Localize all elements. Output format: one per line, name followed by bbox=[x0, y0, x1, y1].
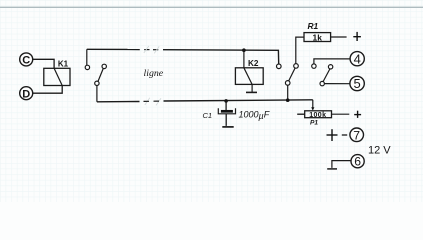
svg-text:ligne: ligne bbox=[144, 68, 164, 79]
wire C1 lower stub bbox=[225, 114, 227, 126]
wire C1 stub bbox=[225, 101, 227, 110]
wire R1 left lead bbox=[296, 37, 304, 64]
svg-text:5: 5 bbox=[353, 76, 360, 91]
wire terminal 6 lead bbox=[332, 161, 351, 168]
svg-text:1k: 1k bbox=[313, 32, 323, 42]
plus terminal (P1) bbox=[354, 111, 361, 118]
resistor R1 bbox=[304, 32, 331, 42]
wire R1 right lead bbox=[331, 36, 347, 38]
svg-text:P1: P1 bbox=[310, 120, 318, 127]
svg-text:R1: R1 bbox=[307, 21, 318, 31]
svg-text:100k: 100k bbox=[309, 112, 326, 119]
switch S1 bbox=[85, 64, 106, 85]
switch S2 bbox=[277, 64, 299, 86]
junction node (K2 tap) bbox=[242, 48, 246, 52]
junction node (S2 pole) bbox=[286, 98, 290, 102]
wire P1 right lead bbox=[332, 113, 350, 115]
wire ligne bottom bbox=[97, 100, 313, 102]
wire ligne top bbox=[87, 49, 279, 64]
top margin rule bbox=[0, 6, 423, 8]
svg-text:C: C bbox=[22, 55, 30, 67]
svg-text:4: 4 bbox=[354, 51, 361, 66]
terminal 4 bbox=[350, 51, 364, 66]
plus terminal (7) bbox=[327, 129, 338, 141]
svg-text:C1: C1 bbox=[202, 111, 212, 120]
svg-text:K1: K1 bbox=[58, 60, 69, 69]
wire S2 pole leg bbox=[287, 85, 289, 100]
minus terminal (P1) bbox=[297, 113, 304, 115]
switch S3 bbox=[312, 64, 333, 86]
wire S3 pole to terminal 5 bbox=[324, 83, 350, 85]
wire K1 to D bbox=[32, 86, 62, 94]
svg-text:12 V: 12 V bbox=[368, 144, 391, 156]
junction node (C1 tap) bbox=[224, 99, 228, 103]
wire S1 pole leg bbox=[96, 86, 98, 102]
wire K2 stub bbox=[243, 50, 245, 68]
ground (K2) bbox=[246, 91, 257, 93]
plus terminal (R1) bbox=[353, 32, 361, 41]
wire K2 bottom stub bbox=[251, 84, 253, 92]
ground (terminal 6) bbox=[327, 168, 337, 170]
wire riser to S1 bbox=[86, 49, 88, 65]
wire wiper drop bbox=[312, 100, 314, 108]
wire C to K1 bbox=[32, 59, 54, 68]
svg-text:D: D bbox=[22, 88, 30, 100]
capacitor C1 bbox=[218, 108, 235, 114]
terminal 5 bbox=[350, 76, 364, 91]
potentiometer P1 bbox=[305, 111, 332, 119]
relay K2 bbox=[235, 68, 263, 85]
wire terminal 7 lead bbox=[342, 134, 347, 136]
terminal 7 bbox=[350, 128, 364, 142]
wiper arrow bbox=[311, 107, 314, 110]
svg-text:K2: K2 bbox=[248, 59, 259, 68]
svg-text:7: 7 bbox=[353, 128, 360, 142]
line break marks bbox=[144, 46, 161, 105]
relay K1 bbox=[44, 68, 70, 85]
svg-text:6: 6 bbox=[354, 155, 361, 169]
terminal D bbox=[20, 87, 33, 101]
terminal 6 bbox=[351, 155, 364, 169]
svg-text:1000µF: 1000µF bbox=[239, 110, 270, 122]
ground (C1) bbox=[222, 126, 233, 128]
terminal C bbox=[20, 53, 33, 67]
wire terminal 4 bbox=[314, 59, 350, 64]
